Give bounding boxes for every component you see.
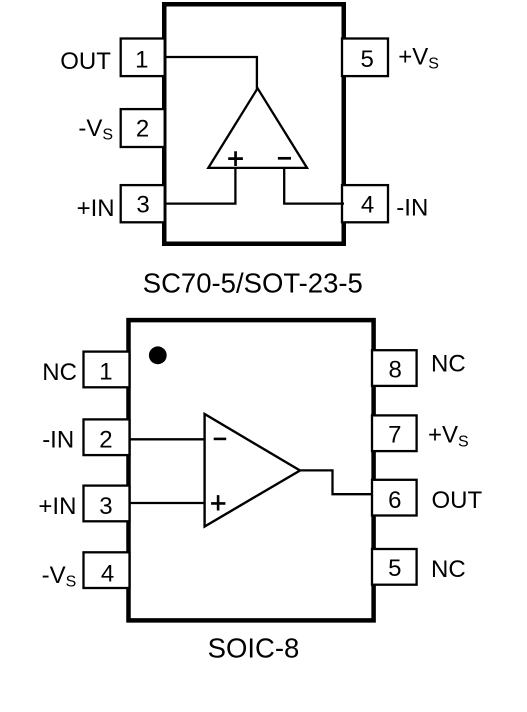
svg-text:NC: NC: [42, 359, 77, 386]
svg-text:1: 1: [99, 359, 112, 386]
svg-text:6: 6: [388, 487, 401, 514]
svg-text:5: 5: [361, 46, 374, 73]
pin 1 box (SOIC-8): [84, 352, 130, 388]
pin 5 box (SOIC-8): [372, 549, 417, 585]
wire -IN pin2 to op-amp: [130, 438, 204, 440]
svg-text:-IN: -IN: [396, 194, 428, 221]
svg-text:OUT: OUT: [60, 48, 111, 75]
wire op-amp output to pin6: [299, 470, 373, 494]
package SOIC-8 body: [129, 320, 374, 620]
wire -IN pin4 to op-amp: [284, 167, 344, 204]
package SC70-5/SOT-23-5 body: [164, 4, 344, 244]
pin 4 box (SOIC-8): [84, 552, 130, 588]
minus input symbol (bottom op-amp): [214, 438, 227, 441]
svg-text:2: 2: [99, 427, 112, 454]
svg-text:4: 4: [361, 192, 374, 219]
pin 7 box (SOIC-8): [372, 415, 417, 451]
pin 3 box (SOIC-8): [84, 486, 130, 522]
pin 1 box (top pkg): [121, 39, 165, 77]
svg-text:-IN: -IN: [42, 427, 74, 454]
svg-text:5: 5: [388, 555, 401, 582]
op-amp A1 (top pkg, triangle pointing up): [208, 88, 307, 168]
op-amp A2 (SOIC-8, triangle pointing right): [205, 414, 300, 527]
pin 1 indicator dot: [149, 346, 167, 364]
svg-text:8: 8: [389, 356, 402, 383]
svg-text:4: 4: [101, 561, 114, 588]
svg-text:1: 1: [135, 46, 148, 73]
pin 3 box (top pkg): [121, 185, 165, 222]
svg-text:7: 7: [388, 421, 401, 448]
svg-text:+IN: +IN: [38, 493, 76, 520]
svg-text:2: 2: [136, 115, 149, 142]
svg-text:NC: NC: [431, 556, 466, 583]
svg-text:3: 3: [136, 192, 149, 219]
svg-text:SOIC-8: SOIC-8: [208, 632, 300, 663]
plus input symbol (bottom op-amp): [211, 495, 225, 510]
minus input symbol (top op-amp): [278, 157, 291, 160]
svg-text:OUT: OUT: [432, 487, 483, 514]
pin 8 box (SOIC-8): [372, 350, 417, 386]
plus input symbol (top op-amp): [228, 151, 243, 166]
pin 2 box (SOIC-8): [84, 419, 130, 455]
wire pin1 to op-amp output: [164, 57, 257, 90]
pin 6 box (SOIC-8): [372, 480, 417, 516]
svg-text:+IN: +IN: [77, 195, 115, 222]
wire +IN pin3 to op-amp: [130, 502, 204, 504]
pin 2 box (top pkg): [121, 109, 165, 147]
svg-text:3: 3: [99, 493, 112, 520]
wire +IN pin3 to op-amp: [164, 167, 235, 204]
pin 5 box (top pkg): [342, 39, 388, 77]
svg-text:NC: NC: [431, 351, 466, 378]
svg-text:SC70-5/SOT-23-5: SC70-5/SOT-23-5: [143, 268, 363, 299]
pin 4 box (top pkg): [342, 185, 388, 222]
